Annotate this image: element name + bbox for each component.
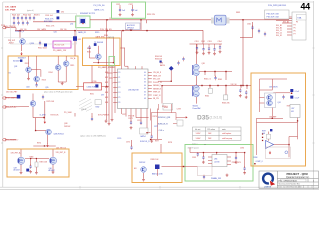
svg-text:R315: R315 (70, 65, 74, 67)
svg-text:PM_SLP_S4#: PM_SLP_S4# (267, 17, 280, 19)
svg-text:SUSCLK_R: SUSCLK_R (158, 124, 169, 126)
svg-text:G3: G3 (144, 82, 146, 84)
svg-text:13V_S0: 13V_S0 (60, 29, 66, 31)
svg-text:C301 1uF: C301 1uF (45, 15, 54, 17)
svg-text:R361 2.2: R361 2.2 (204, 79, 211, 81)
svg-text:C351: C351 (195, 41, 199, 43)
svg-text:G_DRV: G_DRV (40, 114, 47, 116)
svg-text:C375: C375 (126, 142, 130, 144)
svg-text:VREF_2V: VREF_2V (153, 92, 161, 94)
svg-text:C354: C354 (218, 41, 222, 43)
svg-text:C393: C393 (192, 157, 196, 159)
svg-text:P0: P0 (119, 72, 121, 74)
svg-text:SIG_D1: SIG_D1 (276, 35, 282, 37)
svg-text:G1: G1 (8, 72, 10, 74)
svg-text:13V_S0: 13V_S0 (231, 84, 237, 86)
svg-text:C321: C321 (116, 4, 120, 6)
svg-text:1.00V: 1.00V (196, 138, 202, 140)
svg-text:G8: G8 (144, 98, 146, 100)
svg-text:13V_GATE: 13V_GATE (5, 5, 17, 8)
svg-text:Size Document Number Rev: Size Document Number Rev (279, 183, 301, 186)
svg-text:P7: P7 (294, 34, 296, 36)
svg-text:U35 BQ738: U35 BQ738 (128, 89, 139, 91)
svg-text:R1 value: R1 value (208, 129, 215, 131)
svg-text:C371: C371 (122, 114, 126, 116)
svg-text:R318 13V: R318 13V (147, 14, 156, 16)
svg-text:R373 10K: R373 10K (51, 114, 60, 116)
svg-text:R302 10K: R302 10K (23, 14, 32, 16)
svg-text:G5: G5 (144, 88, 146, 90)
svg-text:13V_MON: 13V_MON (269, 86, 278, 88)
svg-text:R303 0: R303 0 (34, 14, 40, 16)
svg-text:D35: D35 (197, 115, 209, 122)
svg-text:FB31: FB31 (236, 12, 240, 14)
svg-text:PD_GATE_13V: PD_GATE_13V (53, 49, 67, 52)
svg-text:stuff option: stuff option (222, 132, 231, 135)
svg-text:Q38: Q38 (64, 123, 67, 125)
svg-text:PCH_PWR_EN R501: PCH_PWR_EN R501 (268, 5, 286, 7)
svg-text:Q34: Q34 (26, 86, 29, 88)
svg-text:R375 10K: R375 10K (47, 101, 55, 103)
svg-text:PM_SLP_S3#: PM_SLP_S3# (267, 14, 280, 16)
svg-text:Vo set: Vo set (195, 128, 201, 131)
svg-text:0.1uF: 0.1uF (295, 97, 299, 99)
svg-text:R314: R314 (49, 72, 53, 74)
svg-text:PU_GATE_DRIVER: PU_GATE_DRIVER (98, 66, 116, 69)
svg-text:(2.2x1.6): (2.2x1.6) (210, 115, 223, 119)
svg-text:LDO33: LDO33 (214, 162, 219, 164)
svg-text:Q35: Q35 (45, 87, 48, 89)
svg-text:13V_PWR: 13V_PWR (5, 9, 16, 11)
svg-text:SUSCLK_Q38: SUSCLK_Q38 (158, 117, 170, 119)
svg-text:R378: R378 (168, 142, 172, 144)
svg-text:R364 10K: R364 10K (155, 56, 163, 58)
svg-text:R319: R319 (95, 32, 99, 34)
svg-text:R377: R377 (155, 141, 159, 143)
svg-text:C376: C376 (117, 138, 121, 140)
svg-text:13: 13 (109, 18, 111, 20)
svg-text:BAT54: BAT54 (141, 135, 146, 138)
svg-text:2N7002: 2N7002 (139, 162, 145, 164)
svg-text:D31: D31 (78, 39, 81, 41)
svg-text:P4: P4 (294, 25, 296, 27)
svg-text:R366 20K: R366 20K (155, 59, 163, 61)
svg-text:P/N : QFMXXX MLB: P/N : QFMXXX MLB (279, 180, 298, 182)
svg-text:13V_FET_B: 13V_FET_B (56, 152, 67, 154)
svg-text:G0: G0 (144, 72, 146, 74)
svg-text:QUANTA: QUANTA (264, 185, 272, 188)
svg-text:P4: P4 (119, 92, 121, 94)
svg-text:Q38 2N7002: Q38 2N7002 (54, 134, 64, 136)
svg-text:AO4407: AO4407 (14, 169, 20, 172)
svg-text:R341 1K: R341 1K (108, 37, 115, 39)
svg-text:R379: R379 (153, 116, 157, 118)
svg-text:AO4407: AO4407 (13, 59, 20, 62)
svg-text:note x: note x (192, 143, 197, 146)
svg-text:R374: R374 (37, 142, 41, 144)
svg-text:_SUS#: _SUS# (7, 43, 14, 45)
svg-text:R332: R332 (96, 107, 100, 109)
svg-text:note: note (222, 128, 226, 131)
svg-text:COMP_O: COMP_O (256, 161, 264, 163)
svg-text:Quanta Computer Inc.: Quanta Computer Inc. (286, 176, 310, 179)
svg-text:R320: R320 (87, 48, 91, 50)
svg-text:COMP_13: COMP_13 (153, 95, 161, 97)
svg-text:P3: P3 (119, 87, 121, 89)
svg-text:0.1uF: 0.1uF (295, 91, 299, 93)
svg-text:(gate ctl): (gate ctl) (27, 9, 34, 12)
svg-text:P6: P6 (119, 102, 121, 104)
svg-text:Q32: Q32 (70, 24, 73, 26)
svg-text:BAT54C D36: BAT54C D36 (152, 173, 162, 176)
svg-text:44: 44 (301, 2, 311, 12)
svg-text:PU 13V 1.2K: PU 13V 1.2K (55, 45, 66, 47)
svg-text:WWAN_3V3: WWAN_3V3 (211, 177, 221, 180)
svg-text:stuff no-pop: stuff no-pop (222, 137, 232, 140)
svg-text:C378: C378 (177, 109, 181, 111)
svg-text:R313: R313 (42, 80, 46, 82)
svg-text:PGOOD_13: PGOOD_13 (153, 82, 162, 84)
svg-text:C372: C372 (137, 120, 141, 122)
svg-text:G4: G4 (144, 85, 146, 87)
svg-text:1.05V: 1.05V (196, 133, 202, 135)
svg-text:PD_100K: PD_100K (64, 112, 72, 114)
svg-text:AO4407: AO4407 (49, 169, 55, 172)
svg-text:ISENSE_P: ISENSE_P (153, 85, 161, 87)
svg-text:PU_13V_S0: PU_13V_S0 (94, 5, 106, 7)
svg-text:place close to PCH gate driver: place close to PCH gate driver pin (44, 90, 73, 93)
svg-text:C396: C396 (240, 147, 244, 149)
svg-text:SYS_PWROK: SYS_PWROK (98, 114, 110, 116)
svg-text:13V_GATE: 13V_GATE (37, 28, 47, 31)
svg-text:R301 10K: R301 10K (12, 14, 21, 16)
svg-text:P5: P5 (294, 28, 296, 30)
svg-text:2N7002: 2N7002 (64, 126, 70, 128)
svg-text:Q41: Q41 (278, 102, 281, 104)
svg-text:GATE_R1: GATE_R1 (78, 31, 86, 34)
svg-text:AOZ1031: AOZ1031 (127, 24, 135, 27)
svg-text:PM_SLP_A#: PM_SLP_A# (6, 105, 16, 108)
svg-text:G6: G6 (144, 91, 146, 93)
svg-text:G1: G1 (144, 75, 146, 77)
svg-text:R362: R362 (205, 96, 209, 98)
svg-text:R365: R365 (218, 79, 222, 81)
svg-text:C352: C352 (201, 41, 205, 43)
svg-text:431: 431 (291, 111, 294, 113)
svg-text:G2: G2 (144, 78, 146, 80)
svg-text:R376 0: R376 0 (162, 106, 168, 108)
svg-text:DFN3x3: DFN3x3 (127, 27, 134, 29)
svg-text:ISENSE_N: ISENSE_N (153, 88, 162, 90)
svg-text:U37: U37 (291, 108, 294, 110)
svg-text:13V_FET_A: 13V_FET_A (11, 152, 22, 155)
svg-text:PWROK_R: PWROK_R (15, 31, 25, 33)
svg-text:R304 4.7K: R304 4.7K (45, 18, 54, 20)
svg-text:P2: P2 (119, 82, 121, 84)
svg-text:SUSCLK_R: SUSCLK_R (140, 141, 150, 143)
svg-text:13V_REF: 13V_REF (269, 117, 276, 119)
svg-text:GND A: GND A (81, 108, 87, 111)
svg-text:SIG_A2: SIG_A2 (283, 21, 289, 24)
svg-text:SI4435DY: SI4435DY (18, 58, 27, 60)
svg-text:13V_A: 13V_A (70, 57, 76, 60)
svg-text:(place close to U35 GATE pin): (place close to U35 GATE pin) (80, 134, 106, 137)
svg-text:BSS138W: BSS138W (44, 21, 53, 23)
svg-text:3G/LTE power: 3G/LTE power (188, 148, 200, 150)
svg-text:Q33: Q33 (14, 66, 17, 68)
svg-text:R311 4.7K: R311 4.7K (46, 26, 55, 28)
svg-text:PowerPAK: PowerPAK (193, 107, 202, 110)
svg-text:XTAL: XTAL (297, 16, 301, 19)
svg-text:Q36: Q36 (202, 63, 205, 65)
svg-text:FDN306P SOT23: FDN306P SOT23 (80, 13, 95, 15)
svg-text:C330: C330 (93, 81, 97, 83)
svg-text:G7: G7 (144, 95, 146, 97)
svg-text:P6: P6 (294, 31, 296, 33)
svg-text:R310 100K: R310 100K (38, 47, 48, 49)
svg-text:13V_FET_B: 13V_FET_B (56, 147, 67, 149)
svg-text:C361: C361 (247, 24, 251, 26)
svg-text:U36: U36 (214, 159, 217, 161)
svg-text:FB_13V: FB_13V (153, 98, 160, 100)
svg-text:BAT54: BAT54 (160, 64, 165, 67)
svg-text:SRC_13V: SRC_13V (153, 79, 161, 81)
svg-text:C353: C353 (208, 41, 212, 43)
svg-text:R381 10K: R381 10K (40, 161, 48, 163)
svg-text:P3: P3 (296, 22, 298, 24)
svg-text:CLK =: CLK = (159, 130, 165, 132)
svg-text:R321: R321 (87, 51, 91, 53)
svg-text:R363 20K: R363 20K (222, 102, 230, 104)
svg-text:PWR_3V3: PWR_3V3 (232, 162, 241, 164)
svg-text:R380: R380 (30, 157, 34, 159)
svg-text:R331: R331 (90, 93, 94, 95)
svg-text:C377: C377 (154, 126, 158, 128)
svg-text:P5: P5 (119, 97, 121, 99)
svg-text:PCH_13V_EN: PCH_13V_EN (100, 29, 112, 31)
svg-text:D32: D32 (61, 12, 64, 14)
svg-text:13V_S0: 13V_S0 (20, 29, 26, 31)
svg-text:13V_EN_R: 13V_EN_R (153, 72, 162, 74)
svg-text:R385 10K: R385 10K (151, 159, 160, 161)
svg-text:Date: Jun 2011 Sheet 44 of: Date: Jun 2011 Sheet 44 of 60 (279, 186, 302, 189)
svg-text:R371: R371 (128, 118, 132, 120)
svg-text:C322: C322 (129, 4, 133, 6)
svg-text:R398: R398 (253, 157, 257, 159)
svg-text:P1: P1 (119, 77, 121, 79)
svg-text:13V_S0_FET: 13V_S0_FET (6, 91, 18, 93)
svg-text:GATE_CTL: GATE_CTL (94, 8, 105, 11)
svg-text:C330 X5R: C330 X5R (87, 87, 96, 89)
svg-text:Q31: Q31 (54, 32, 57, 34)
svg-text:49.9: 49.9 (101, 94, 104, 96)
